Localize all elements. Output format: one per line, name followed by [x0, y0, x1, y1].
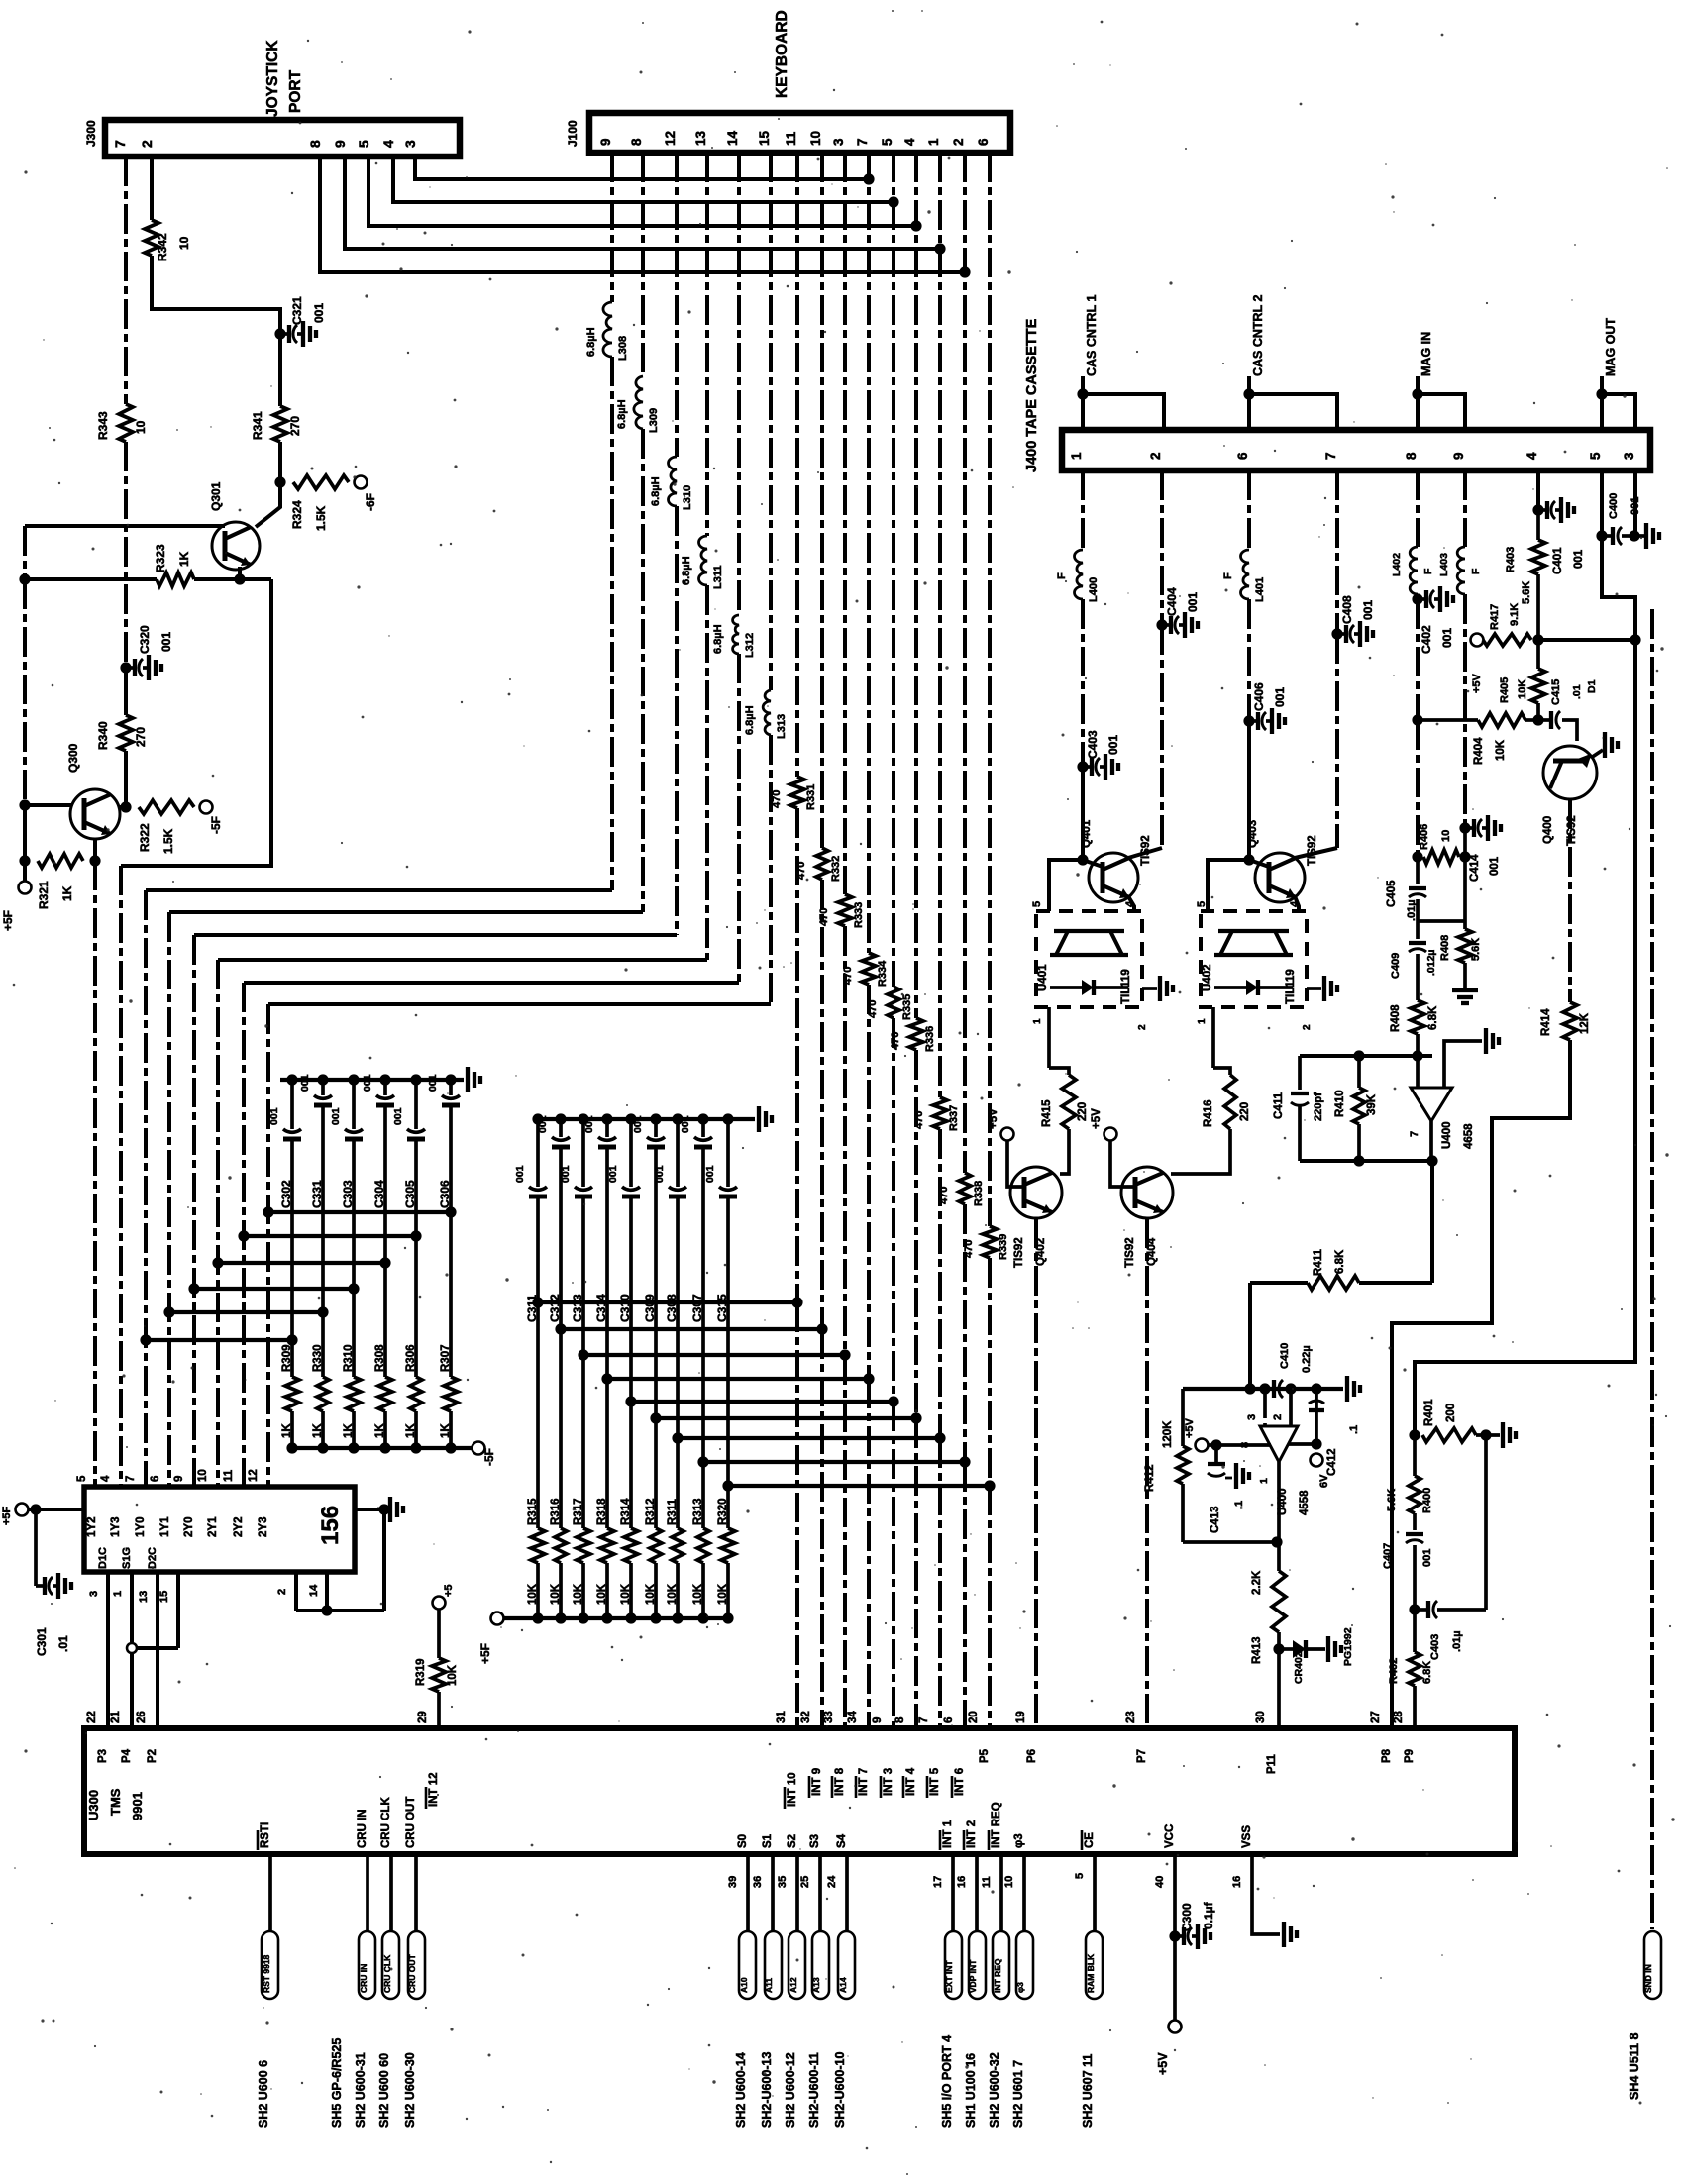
svg-text:SH2-U600-11: SH2-U600-11 — [807, 2052, 821, 2128]
terminal +5F into 156 — [16, 1504, 29, 1516]
svg-text:L310: L310 — [682, 485, 693, 510]
wire left cap array ground bus — [280, 1078, 464, 1082]
svg-text:A12: A12 — [789, 1977, 798, 1993]
net label pill CRU CLK — [382, 1931, 399, 1999]
wire matrix row — [194, 1287, 354, 1291]
wire U300 stub A12 — [795, 1854, 799, 1931]
resistor R321 1K — [38, 854, 83, 868]
terminal +5F open circle — [19, 882, 32, 894]
wire +5F rail lower — [23, 805, 27, 861]
svg-text:INT 12: INT 12 — [428, 1772, 440, 1807]
capacitor C412 .1 — [1309, 1408, 1324, 1412]
ground opamp2 rail — [1345, 1376, 1349, 1402]
wire R313 column — [701, 1462, 705, 1528]
resistor R406 10 row — [1423, 850, 1459, 864]
svg-text:R401: R401 — [1423, 1399, 1435, 1426]
svg-text:1: 1 — [1069, 452, 1084, 460]
svg-text:4: 4 — [902, 138, 917, 146]
svg-text:001: 001 — [1421, 1549, 1433, 1567]
wire R333 to U300 — [843, 926, 847, 1355]
resistor R405 10K — [1536, 640, 1540, 669]
capacitor C309 .001 — [654, 1119, 658, 1137]
svg-text:3: 3 — [1622, 452, 1636, 460]
resistor R414 12K — [1563, 1002, 1577, 1040]
capacitor C321 .001 with ground — [280, 332, 289, 336]
wire L310 down and left to bundle — [675, 506, 679, 935]
svg-text:13: 13 — [138, 1591, 150, 1603]
capacitor C307 .001 — [701, 1119, 705, 1137]
capacitor C320 .001 with ground — [126, 666, 135, 670]
resistor R316 10K — [555, 1528, 567, 1563]
resistor R338 470 — [959, 1173, 971, 1204]
wire R334 to U300 — [867, 985, 871, 1379]
wire R336 to U300 — [914, 1050, 918, 1418]
capacitor C403 .01u — [1415, 1608, 1428, 1612]
svg-text:C314: C314 — [594, 1294, 608, 1322]
svg-text:2Y0: 2Y0 — [183, 1517, 195, 1537]
svg-text:3: 3 — [402, 140, 418, 148]
svg-text:8: 8 — [1404, 452, 1419, 460]
op-amp U400 4558 second — [1260, 1426, 1298, 1462]
svg-text:L402: L402 — [1391, 553, 1403, 576]
resistor R416 220 — [1224, 1075, 1236, 1129]
svg-text:+5V: +5V — [1156, 2052, 1170, 2075]
inductor L311 6.8uH — [699, 536, 707, 585]
wire R317 column — [581, 1355, 585, 1528]
net label pill CRU OUT — [408, 1931, 425, 1999]
net MAG IN — [1412, 388, 1422, 399]
svg-text:C415: C415 — [1550, 679, 1562, 705]
svg-text:C320: C320 — [138, 625, 152, 654]
svg-text:EXT INT: EXT INT — [944, 1960, 954, 1993]
wire chain to R406 — [1416, 720, 1420, 857]
svg-text:3: 3 — [1246, 1414, 1258, 1420]
wire J100 column R337 — [938, 153, 942, 1097]
wire J100 column R338 — [963, 153, 967, 1173]
wire C415 to Q400 base — [1562, 720, 1577, 741]
svg-text:R408: R408 — [1439, 935, 1451, 961]
node Q401 base — [1077, 854, 1088, 865]
wire J100 pin column L312 — [737, 153, 741, 615]
node R406 left — [1412, 851, 1422, 862]
svg-text:R335: R335 — [901, 994, 913, 1020]
diode CR402 PG1992 with ground — [1279, 1647, 1293, 1651]
svg-text:φ3: φ3 — [1013, 1833, 1025, 1848]
svg-text:R333: R333 — [853, 902, 865, 928]
net label pill SND IN — [1644, 1931, 1661, 1999]
svg-text:+5: +5 — [443, 1584, 455, 1597]
svg-text:4: 4 — [1124, 900, 1136, 907]
resistor R343 10 — [119, 404, 133, 442]
svg-text:SH2-U600-10: SH2-U600-10 — [833, 2052, 847, 2128]
svg-text:001: 001 — [654, 1165, 666, 1183]
svg-text:7: 7 — [125, 1476, 137, 1482]
net label pill EXT INT — [945, 1931, 962, 1999]
svg-text:INT 2: INT 2 — [966, 1820, 978, 1848]
capacitor C405 .01u — [1416, 857, 1420, 884]
wire J300 pin4 to J100 pin5 — [393, 156, 894, 202]
net label pill A12 — [789, 1931, 805, 1999]
svg-text:S4: S4 — [836, 1833, 848, 1848]
resistor R413 2.2K — [1272, 1571, 1286, 1632]
resistor R306 1K — [410, 1377, 422, 1411]
wire R337 to U300 — [938, 1129, 942, 1438]
svg-text:P2: P2 — [147, 1749, 158, 1763]
wire SND IN dash line — [1650, 609, 1654, 1929]
svg-text:16: 16 — [956, 1876, 968, 1888]
node row C302 — [286, 1334, 297, 1345]
transistor Q300 — [70, 789, 120, 839]
wire R314 column — [629, 1402, 633, 1528]
svg-text:35: 35 — [777, 1876, 789, 1888]
resistor R322 1.5K to -5F — [139, 800, 194, 814]
svg-text:SH2 U600-30: SH2 U600-30 — [403, 2052, 417, 2128]
wire R343 to C320 node — [124, 442, 128, 662]
svg-text:470: 470 — [963, 1240, 975, 1258]
svg-text:25: 25 — [799, 1876, 811, 1888]
svg-text:6.8K: 6.8K — [1427, 1005, 1439, 1030]
U401 pin2 ground — [1142, 987, 1157, 990]
svg-text:1K: 1K — [60, 885, 74, 901]
wire R401 right to C403 — [1484, 1435, 1488, 1610]
svg-text:12: 12 — [663, 131, 678, 146]
node C400 left — [1596, 530, 1607, 541]
svg-text:.012µ: .012µ — [1425, 950, 1437, 977]
capacitor C410 0.22u — [1272, 1380, 1276, 1398]
wire R315 column — [536, 1302, 540, 1528]
inductor L312 6.8uH — [733, 615, 739, 654]
svg-text:001: 001 — [392, 1107, 404, 1125]
svg-text:4: 4 — [100, 1475, 112, 1482]
svg-text:CR402: CR402 — [1293, 1651, 1305, 1684]
capacitor C407 .001 — [1413, 1513, 1417, 1530]
svg-text:8: 8 — [894, 1716, 906, 1723]
svg-text:470: 470 — [795, 862, 807, 880]
svg-text:C411: C411 — [1273, 1092, 1285, 1119]
svg-text:-6F: -6F — [364, 493, 377, 511]
svg-text:L309: L309 — [648, 408, 660, 433]
svg-text:2: 2 — [1302, 1024, 1313, 1030]
svg-text:15: 15 — [757, 130, 772, 146]
wire U300 stub A11 — [771, 1854, 775, 1931]
capacitor C315 .001 — [726, 1119, 730, 1187]
svg-text:6.8µH: 6.8µH — [616, 399, 628, 429]
wire row C307 to J100 column — [703, 1460, 965, 1464]
svg-text:R406: R406 — [1419, 824, 1430, 850]
wire MAG OUT riser — [1415, 640, 1635, 1435]
svg-text:001: 001 — [1106, 735, 1120, 755]
svg-text:C300: C300 — [1180, 1903, 1194, 1931]
svg-text:6.8µH: 6.8µH — [712, 624, 724, 654]
svg-text:R411: R411 — [1313, 1249, 1324, 1276]
wire J100 pin column L308 — [610, 153, 614, 302]
svg-text:1Y2: 1Y2 — [86, 1517, 98, 1537]
svg-text:001: 001 — [330, 1107, 342, 1125]
156 right ground stub — [355, 1508, 384, 1511]
connector J100 keyboard — [589, 113, 1010, 153]
svg-text:F: F — [1222, 572, 1234, 579]
capacitor C305 .001 — [414, 1080, 418, 1129]
wire right cap array ground bus — [538, 1117, 755, 1121]
wire L312 down and left to bundle — [737, 654, 741, 983]
svg-text:0.22µ: 0.22µ — [1301, 1345, 1313, 1373]
wire R316 column — [559, 1329, 563, 1528]
svg-text:5: 5 — [76, 1475, 88, 1482]
svg-text:L311: L311 — [712, 566, 724, 589]
wire R338 to U300 — [963, 1204, 967, 1462]
svg-text:VSS: VSS — [1241, 1825, 1253, 1848]
svg-text:A14: A14 — [838, 1977, 848, 1993]
opamp2 pin4 and 6V terminal — [1288, 1442, 1316, 1446]
svg-text:R317: R317 — [573, 1499, 584, 1526]
svg-text:R334: R334 — [877, 960, 889, 987]
wire row C313 to J100 column — [583, 1353, 845, 1357]
node opamp rail — [1412, 1050, 1422, 1061]
svg-text:6.8K: 6.8K — [1334, 1249, 1346, 1274]
wire U300 stub VDP INT — [975, 1854, 979, 1931]
capacitor C408 .001 with ground — [1337, 632, 1346, 636]
U401 pin1 to R415 — [1047, 1007, 1051, 1068]
svg-text:001: 001 — [362, 1074, 373, 1092]
resistor R408 6.8K — [1411, 1000, 1424, 1034]
wire J400 pin7 column — [1335, 470, 1339, 634]
svg-text:R307: R307 — [440, 1345, 452, 1373]
svg-text:9901: 9901 — [130, 1792, 145, 1820]
svg-text:32: 32 — [800, 1711, 812, 1723]
terminal +5V opamp2 — [1196, 1439, 1209, 1452]
wire U300 stub INT REQ — [999, 1854, 1003, 1931]
svg-text:INT REQ: INT REQ — [991, 1802, 1002, 1848]
wire J100 column R333 — [843, 153, 847, 894]
wire J100 column R334 — [867, 153, 871, 953]
resistor R330 1K — [317, 1377, 329, 1411]
svg-text:8: 8 — [629, 138, 644, 146]
svg-text:9: 9 — [872, 1717, 884, 1723]
svg-text:R340: R340 — [96, 721, 110, 750]
svg-text:R404: R404 — [1473, 737, 1485, 765]
svg-text:14: 14 — [725, 130, 740, 146]
svg-text:0.1µf: 0.1µf — [1202, 1901, 1215, 1929]
svg-text:10: 10 — [197, 1469, 209, 1482]
svg-text:S0: S0 — [737, 1834, 749, 1848]
terminal +5F right array — [491, 1612, 504, 1625]
svg-text:R321: R321 — [37, 881, 51, 909]
U402 pin1 to R416 — [1211, 1007, 1215, 1068]
svg-text:6: 6 — [943, 1717, 955, 1723]
svg-text:TIL119: TIL119 — [1285, 969, 1297, 1004]
svg-text:470: 470 — [771, 790, 783, 808]
svg-text:U401: U401 — [1037, 964, 1049, 991]
svg-text:CRU IN: CRU IN — [359, 1964, 368, 1993]
capacitor C411 220pf — [1298, 1056, 1302, 1090]
svg-text:.1: .1 — [1348, 1425, 1360, 1434]
resistor R342 10 — [145, 220, 158, 256]
capacitor C312 .001 — [559, 1119, 563, 1137]
U300 VCC pin with C300 — [1173, 1854, 1177, 1936]
svg-text:P6: P6 — [1026, 1749, 1038, 1763]
wire U300 stub A13 — [818, 1854, 822, 1931]
svg-text:5: 5 — [880, 138, 894, 146]
capacitor C314 .001 — [605, 1119, 609, 1137]
transistor Q301 — [212, 522, 260, 570]
svg-text:30: 30 — [1255, 1711, 1267, 1723]
wire row C308 to J100 column — [678, 1436, 940, 1440]
svg-text:001: 001 — [427, 1074, 439, 1092]
svg-text:C315: C315 — [715, 1294, 729, 1322]
svg-text:SH2 U600-14: SH2 U600-14 — [734, 2052, 748, 2128]
svg-text:270: 270 — [288, 416, 302, 436]
wire J400 pin5 column — [1600, 470, 1604, 536]
wire row C312 to J100 column — [561, 1327, 822, 1331]
svg-text:C414: C414 — [1469, 854, 1481, 882]
svg-text:J400 TAPE CASSETTE: J400 TAPE CASSETTE — [1024, 318, 1040, 472]
terminal -5F left array — [473, 1442, 485, 1455]
resistor R331 470 — [790, 777, 804, 808]
node row C305 — [410, 1230, 421, 1241]
node C406 — [1243, 715, 1254, 726]
wire row C309 to J100 column — [656, 1416, 916, 1420]
node Q301 emitter — [234, 573, 245, 584]
svg-text:R342: R342 — [156, 233, 169, 261]
svg-text:10: 10 — [134, 420, 148, 434]
wire J300 pin2 to R342 — [150, 156, 154, 220]
wire R331 to U300 — [795, 808, 799, 1302]
U300 VSS pin to ground — [1252, 1854, 1280, 1934]
wire R342 down and over to C321 column — [152, 256, 280, 334]
svg-text:INT 7: INT 7 — [858, 1768, 870, 1796]
156 pin 3 to U300 P3 — [106, 1572, 110, 1728]
svg-text:8: 8 — [307, 140, 323, 148]
resistor R341 270 — [273, 406, 287, 442]
IC U300 TMS 9901 box — [84, 1728, 1515, 1854]
wire pin5 jog to R417 row — [1602, 536, 1635, 640]
wire to U401 pin5 — [1049, 860, 1083, 911]
wire Q401 emitter to U401 pin4 — [1128, 896, 1134, 911]
svg-text:1.5K: 1.5K — [161, 828, 175, 854]
svg-text:19: 19 — [1015, 1711, 1027, 1723]
wire R309 column — [290, 1340, 294, 1377]
svg-text:JOYSTICK: JOYSTICK — [264, 40, 281, 117]
svg-text:14: 14 — [308, 1584, 320, 1597]
wire L309 down and left to bundle — [641, 429, 645, 912]
156 pin 13 to U300 P2 — [156, 1572, 159, 1728]
svg-text:1K: 1K — [177, 551, 191, 567]
svg-text:1Y1: 1Y1 — [159, 1516, 171, 1537]
svg-text:C404: C404 — [1165, 587, 1179, 616]
svg-text:U400: U400 — [1441, 1122, 1453, 1150]
capacitor C415 .01 — [1538, 718, 1551, 722]
capacitor C404 .001 with ground — [1162, 623, 1171, 627]
wire pin8 chain down — [1416, 599, 1420, 720]
wire R320 column — [726, 1486, 730, 1528]
svg-text:A10: A10 — [739, 1977, 749, 1993]
resistor R309 1K — [285, 1377, 299, 1411]
wire R412 bottom to output node — [1183, 1540, 1277, 1544]
resistor R337 470 — [933, 1097, 947, 1129]
inductor L402 F — [1410, 547, 1418, 594]
node row C313 — [578, 1349, 588, 1360]
wire Q403 emitter to U402 pin4 — [1295, 896, 1299, 911]
wire R341 to Q301 collector node — [278, 442, 282, 482]
wire J100 pin column L311 — [705, 153, 709, 536]
svg-text:Q401: Q401 — [1081, 819, 1093, 848]
node Q300 emitter junction — [89, 855, 100, 866]
svg-text:001: 001 — [159, 632, 173, 652]
svg-text:R318: R318 — [596, 1498, 608, 1525]
wire R312 column — [654, 1418, 658, 1528]
svg-text:RAM BLK: RAM BLK — [1086, 1953, 1096, 1993]
svg-text:R330: R330 — [312, 1345, 324, 1373]
node C403 — [1077, 761, 1088, 772]
resistor R313 10K — [697, 1528, 709, 1563]
node row C311 — [532, 1297, 543, 1307]
svg-text:27: 27 — [1370, 1711, 1382, 1723]
resistor R402 6.8K — [1413, 1610, 1417, 1652]
svg-text:10K: 10K — [1517, 679, 1528, 699]
svg-text:+5V: +5V — [988, 1108, 999, 1129]
resistor R404 10K row — [1418, 718, 1478, 722]
resistor R308 1K — [378, 1377, 392, 1411]
svg-text:C331: C331 — [310, 1180, 324, 1208]
node row C308 — [672, 1432, 683, 1443]
svg-text:11: 11 — [784, 131, 798, 146]
svg-text:6: 6 — [976, 138, 991, 146]
svg-text:2: 2 — [276, 1589, 288, 1595]
svg-text:001: 001 — [1440, 628, 1454, 648]
svg-text:P11: P11 — [1266, 1754, 1278, 1774]
svg-text:11: 11 — [223, 1469, 235, 1482]
wire J300 pin5 to J100 pin4 — [368, 156, 916, 226]
svg-text:C400: C400 — [1608, 493, 1620, 519]
svg-text:001: 001 — [560, 1165, 572, 1183]
wire U300 stub CRU CLK — [389, 1854, 393, 1931]
svg-text:2.2K: 2.2K — [1251, 1570, 1263, 1595]
svg-text:.01µ: .01µ — [1406, 899, 1418, 921]
capacitor C306 .001 — [449, 1080, 453, 1095]
ground C400 — [1634, 534, 1644, 538]
svg-text:C405: C405 — [1386, 880, 1398, 907]
capacitor C414 .001 with ground — [1465, 826, 1474, 830]
net label pill A14 — [838, 1931, 855, 1999]
resistor R410 39K — [1357, 1056, 1361, 1088]
transistor Q400 TIS92 — [1543, 746, 1597, 799]
wire row C311 to J100 column — [538, 1300, 797, 1304]
svg-text:VCC: VCC — [1164, 1824, 1176, 1848]
resistor R400 5.6K — [1413, 1435, 1417, 1476]
svg-text:C306: C306 — [438, 1180, 452, 1208]
wire Q404 emitter to U300 P7 — [1145, 1218, 1149, 1728]
inductor L403 F — [1457, 547, 1465, 594]
svg-text:220pf: 220pf — [1313, 1092, 1324, 1121]
svg-text:2: 2 — [951, 138, 966, 146]
svg-text:5: 5 — [1031, 901, 1043, 907]
svg-text:5.6K: 5.6K — [1386, 1489, 1398, 1511]
svg-text:R322: R322 — [138, 823, 152, 852]
svg-text:20: 20 — [968, 1711, 980, 1723]
svg-text:001: 001 — [1186, 592, 1200, 612]
svg-text:39: 39 — [727, 1876, 739, 1888]
resistor R336 470 — [909, 1018, 923, 1050]
svg-text:R417: R417 — [1489, 604, 1501, 630]
svg-text:C308: C308 — [665, 1294, 679, 1322]
svg-text:470: 470 — [938, 1187, 950, 1204]
resistor R307 1K — [444, 1377, 458, 1411]
svg-text:CAS CNTRL 1: CAS CNTRL 1 — [1085, 295, 1099, 376]
svg-text:R336: R336 — [924, 1026, 936, 1052]
ground left cap array — [466, 1067, 470, 1092]
svg-text:470: 470 — [913, 1111, 925, 1129]
svg-text:220: 220 — [1077, 1102, 1089, 1121]
